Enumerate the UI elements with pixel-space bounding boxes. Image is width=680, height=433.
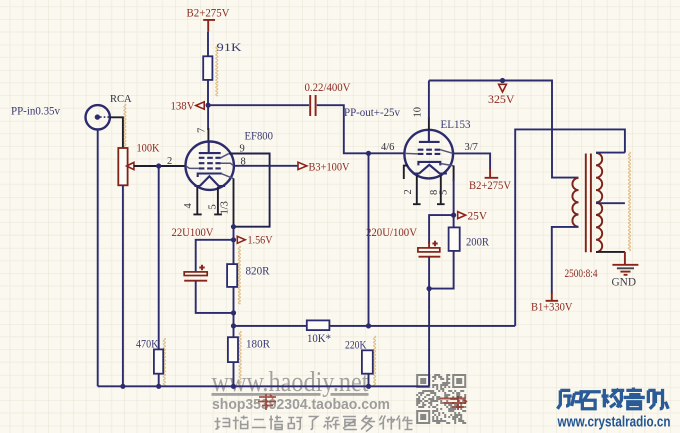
- EL153 g1 to pin 4/6 link: [405, 152, 418, 155]
- resistor 10K*: [307, 320, 330, 330]
- EF800 grid dashes g1: [199, 167, 221, 169]
- svg-text:180R: 180R: [246, 337, 270, 351]
- svg-text:B2+275V: B2+275V: [469, 178, 511, 192]
- svg-text:EF800: EF800: [245, 129, 274, 143]
- node 25V junction: [451, 213, 456, 218]
- resistor 820R: [227, 264, 237, 287]
- EF800 grid dashes g3: [199, 157, 221, 159]
- EL153 pin numbers: [413, 107, 424, 118]
- capacitor 0.22/400V: [305, 80, 351, 116]
- svg-text:200R: 200R: [466, 235, 489, 249]
- ground symbol GND: [612, 265, 638, 275]
- watermark red stamp under shop text: [258, 394, 276, 410]
- svg-text:10K*: 10K*: [307, 331, 331, 345]
- svg-text:7: 7: [197, 128, 208, 133]
- wire wiper to EF800 grid pin 2: [134, 165, 186, 167]
- wire node down to rail: [428, 289, 430, 387]
- EL153 heater filament: [419, 165, 439, 174]
- svg-text:4/6: 4/6: [381, 142, 394, 153]
- wire 220U bottom to node: [428, 257, 430, 289]
- wire 138V node down to EF800 anode pin 7: [207, 105, 209, 130]
- svg-text:1.56V: 1.56V: [248, 233, 273, 247]
- watermark www.haodiy.net: [212, 367, 369, 398]
- watermark Chinese text 扫描二维码了解更多制作: [215, 418, 230, 430]
- EF800 g1 to pin 2 link: [186, 166, 199, 168]
- wire EF800 screen pin 8 to B3 port: [234, 165, 298, 167]
- wire RCA shield down to ground rail: [97, 130, 99, 387]
- EF800 g3 to pin 9 link: [221, 154, 229, 158]
- wire 180R to rail: [233, 362, 235, 386]
- svg-text:www.crystalradio.cn: www.crystalradio.cn: [557, 415, 671, 431]
- EF800 anode plate: [199, 142, 221, 153]
- svg-text:B3+100V: B3+100V: [309, 160, 350, 174]
- wire grid node down to feedback line: [368, 153, 370, 326]
- node 22U bottom junction: [231, 310, 236, 315]
- wire pin 9 loop to cathode: [229, 154, 270, 227]
- svg-text:2: 2: [403, 189, 414, 194]
- svg-text:EL153: EL153: [441, 117, 471, 131]
- wire RCA pin to pot top: [110, 117, 123, 148]
- EL153 anode plate: [419, 130, 440, 142]
- svg-text:www.haodiy.net: www.haodiy.net: [212, 367, 369, 398]
- port arrow 325V: [499, 84, 507, 92]
- svg-text:PP-out+-25v: PP-out+-25v: [344, 105, 400, 119]
- wire secondary bottom to ground: [596, 251, 625, 253]
- port arrow 25V: [458, 212, 466, 219]
- triode EF800 envelope U1: [186, 142, 234, 190]
- EF800 cathode: [198, 174, 222, 178]
- red scribble on QR: [440, 396, 467, 410]
- wire 200R top: [453, 215, 455, 227]
- node grid junction: [366, 151, 371, 156]
- EF800 grid dashes g2: [199, 162, 221, 164]
- wire feedback line with 10K: [234, 325, 516, 327]
- wire anode to transformer primary: [429, 81, 579, 178]
- watermark shop35392304.taobao.com: [212, 396, 390, 413]
- node feedback junction: [231, 323, 236, 328]
- svg-text:25V: 25V: [468, 209, 488, 223]
- wire pot bottom to rail: [122, 185, 124, 386]
- port arrow 138V: [196, 102, 204, 109]
- wire cathode node to 220U cap: [429, 215, 454, 244]
- resistor 180R: [228, 337, 238, 362]
- svg-text:RCA: RCA: [110, 94, 132, 105]
- svg-text:220U/100V: 220U/100V: [366, 225, 417, 239]
- transformer T1 secondary winding: [596, 153, 602, 252]
- node 325V junction: [500, 78, 505, 83]
- pentode EL153 envelope U2: [404, 130, 453, 179]
- svg-text:shop35392304.taobao.com: shop35392304.taobao.com: [212, 396, 390, 413]
- svg-text:325V: 325V: [488, 92, 515, 106]
- wire secondary top lead: [596, 152, 625, 154]
- wire B2 to 91K: [207, 32, 209, 56]
- wire 470K to rail: [158, 374, 160, 387]
- EL153 grid dashes g2: [418, 149, 441, 151]
- EL153 left foot stub: [404, 166, 408, 179]
- svg-text:1/3: 1/3: [220, 201, 231, 214]
- svg-text:GND: GND: [612, 275, 637, 289]
- node wiper junction: [156, 163, 161, 168]
- port arrow B3+100V: [298, 162, 307, 169]
- node 138V junction: [206, 103, 211, 108]
- wire secondary mid tap: [596, 202, 625, 204]
- wire cap to EL153 grid: [317, 105, 405, 153]
- svg-text:2500:8:4: 2500:8:4: [565, 266, 598, 280]
- svg-text:220K: 220K: [345, 338, 367, 352]
- node cathode RC junction: [427, 286, 432, 291]
- wire EL153 cathode down: [453, 166, 455, 182]
- capacitor 220U electrolytic: [418, 241, 440, 257]
- EL153 heater pin 2: [413, 176, 421, 205]
- EF800 heater pin 5: [214, 187, 222, 214]
- svg-text:470K: 470K: [136, 337, 159, 351]
- wire 820R bottom chain: [233, 287, 235, 337]
- svg-text:4: 4: [183, 203, 194, 209]
- EF800 g2 to pin 8 link: [221, 163, 234, 166]
- EL153 cathode: [418, 162, 440, 166]
- node 220K junction: [366, 323, 371, 328]
- svg-text:3/7: 3/7: [465, 142, 478, 153]
- resistor 200R: [449, 227, 460, 251]
- EF800 heater filament: [200, 176, 219, 186]
- ground rail wire: [98, 385, 429, 387]
- logo 矿石收音机: [558, 390, 582, 408]
- svg-text:2: 2: [167, 156, 172, 167]
- EL153 heater pin 8: [437, 176, 445, 205]
- transformer T1 primary winding: [572, 178, 578, 227]
- resistor 470K: [154, 349, 163, 373]
- node cathode junction: [231, 224, 236, 229]
- wire 91K to 138V node: [207, 80, 209, 105]
- wire 138V node to coupling cap: [208, 104, 309, 106]
- EL153 grid dashes g1: [418, 153, 441, 155]
- connector RCA: [86, 94, 133, 130]
- node rail junctions: [120, 384, 125, 389]
- svg-text:10: 10: [413, 107, 424, 118]
- svg-text:PP-in0.35v: PP-in0.35v: [11, 104, 60, 118]
- wire feedback vertical to secondary: [515, 129, 625, 326]
- resistor 91K: [203, 56, 212, 80]
- svg-text:22U100V: 22U100V: [172, 225, 214, 239]
- wire 220K to rail: [368, 374, 370, 387]
- wire EL153 anode pin 10 up: [428, 117, 430, 130]
- wire cathode pin 1/3 down: [233, 178, 235, 227]
- wire cathode node down: [233, 227, 235, 264]
- wire cathode node to 22U cap: [196, 240, 234, 272]
- power symbol B2+275V top: [187, 6, 230, 32]
- power symbol B1+330V: [531, 293, 573, 314]
- svg-text:138V: 138V: [171, 98, 195, 112]
- svg-text:5: 5: [208, 204, 219, 209]
- EL153 g2 to pin 3/7 link: [440, 150, 452, 154]
- potentiometer 100K body: [118, 148, 127, 185]
- svg-text:100K: 100K: [137, 141, 160, 155]
- node 1.56V junction: [231, 237, 236, 242]
- svg-text:820R: 820R: [246, 264, 270, 278]
- svg-text:B2+275V: B2+275V: [187, 6, 230, 20]
- wire 22U bottom to 820R bottom node: [196, 281, 234, 313]
- svg-text:B1+330V: B1+330V: [531, 300, 573, 314]
- QR code watermark: [416, 374, 466, 424]
- port arrow 1.56V: [237, 236, 245, 243]
- wire 200R bottom to node: [429, 251, 454, 289]
- potentiometer wiper arrow: [127, 162, 134, 169]
- watermark squiggle traces: [216, 45, 218, 96]
- svg-text:0.22/400V: 0.22/400V: [305, 80, 351, 94]
- capacitor 22U100V electrolytic: [184, 265, 207, 281]
- wire EL153 screen pin 3/7 to B2: [453, 153, 490, 169]
- wire primary bottom to B1: [552, 227, 579, 294]
- svg-text:91K: 91K: [217, 40, 242, 54]
- power symbol B2+275V right: [469, 169, 511, 192]
- wire grid leak down to 470K: [158, 166, 160, 349]
- transformer core: [586, 154, 591, 253]
- resistor 220K: [362, 350, 373, 373]
- EF800 heater pin 4: [193, 187, 201, 214]
